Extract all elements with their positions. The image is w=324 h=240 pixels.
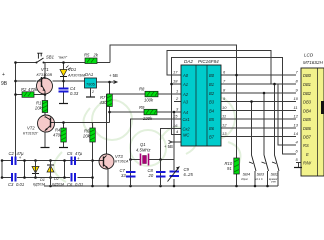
wire second-to-base vertical (92, 161, 94, 187)
svg-text:+ 5В: + 5В (109, 73, 118, 78)
wire B3 row (221, 101, 296, 103)
svg-text:DB2: DB2 (303, 91, 312, 96)
svg-text:430: 430 (100, 100, 108, 105)
LCD pin names (303, 73, 312, 166)
switch SB3 (262, 155, 269, 172)
svg-text:DA2: DA2 (184, 59, 193, 64)
svg-text:счет: счет (271, 181, 277, 184)
svg-text:B4: B4 (209, 109, 215, 114)
ground RW (294, 167, 302, 169)
wire R7 vertical (109, 82, 111, 123)
chip right pin names (209, 73, 215, 140)
svg-text:КТ361А: КТ361А (115, 160, 129, 164)
svg-text:R8: R8 (139, 87, 145, 92)
svg-text:20k: 20k (34, 106, 43, 111)
wire SB2 bottom (277, 172, 279, 186)
wire top bus +9V (16, 62, 111, 64)
ground VT2 emitter (41, 147, 50, 149)
svg-text:220k: 220k (142, 116, 153, 121)
svg-text:20k: 20k (82, 134, 91, 139)
svg-text:+: + (19, 155, 22, 160)
wire top nest A1 (to E) (172, 58, 297, 155)
wire bottom bus (44, 185, 278, 187)
svg-text:16: 16 (173, 123, 178, 128)
ground C4 (59, 103, 68, 105)
svg-text:SB3: SB3 (257, 172, 265, 177)
svg-text:Ск2: Ск2 (183, 127, 191, 132)
chip right pin numbers (222, 70, 227, 137)
svg-text:20: 20 (148, 173, 154, 178)
wire RW stub (296, 163, 301, 168)
wire SB3 drop (263, 93, 265, 155)
svg-text:4.5MHz: 4.5MHz (136, 148, 151, 153)
svg-text:10: 10 (222, 105, 227, 110)
svg-text:18: 18 (173, 79, 178, 84)
wire +5V output (97, 81, 118, 83)
svg-text:C3: C3 (8, 182, 14, 187)
svg-text:B0: B0 (209, 73, 215, 78)
svg-text:14: 14 (294, 131, 299, 136)
svg-text:DB4: DB4 (303, 109, 312, 114)
wire B4 row (221, 110, 296, 112)
watermark (54, 96, 241, 182)
svg-text:B5: B5 (209, 117, 215, 122)
wire rail second (2, 177, 93, 179)
LCD screen corner (321, 101, 324, 114)
diode D2 (47, 166, 54, 173)
node +5V pin14 (169, 141, 173, 144)
svg-text:КД503А: КД503А (52, 183, 65, 187)
wire C9 vertical (173, 160, 175, 187)
svg-text:9В: 9В (1, 81, 8, 87)
wire R6 vertical (91, 123, 93, 161)
svg-text:0.33: 0.33 (70, 91, 79, 96)
svg-text:B7: B7 (209, 135, 215, 140)
node +5V arrow (114, 81, 118, 84)
svg-text:+: + (2, 72, 5, 78)
svg-text:DB6: DB6 (303, 126, 312, 131)
svg-text:A3: A3 (182, 100, 189, 105)
wire SB3 bottom (267, 172, 269, 186)
svg-text:10: 10 (294, 96, 299, 101)
transistor VT3 (99, 154, 114, 169)
svg-text:33: 33 (121, 173, 126, 178)
svg-text:КТ3102Г: КТ3102Г (23, 132, 39, 136)
wire R1 to VT2 collector (44, 113, 46, 118)
svg-text:DB3: DB3 (303, 100, 312, 105)
svg-text:A2: A2 (182, 92, 189, 97)
svg-text:1: 1 (176, 89, 178, 94)
wire VT1 emitter row R2 (16, 94, 46, 96)
wire R10 bottom (236, 174, 238, 186)
wire C2C3 right bracket (24, 161, 26, 178)
wire VT2 base (55, 122, 110, 124)
wire top nest A0 (to RS) (167, 51, 296, 146)
svg-text:DA1: DA1 (85, 72, 93, 77)
svg-text:DB7: DB7 (303, 135, 312, 140)
svg-text:0.01: 0.01 (75, 182, 83, 187)
switch SB1 (37, 53, 44, 62)
svg-text:АЛ307БМ: АЛ307БМ (67, 74, 86, 78)
svg-text:2: 2 (91, 90, 94, 94)
wire regulator input (53, 80, 85, 82)
svg-text:+0.1 С: +0.1 С (255, 177, 263, 181)
svg-text:13: 13 (222, 131, 227, 136)
svg-text:470k: 470k (28, 87, 38, 92)
svg-text:13: 13 (294, 123, 299, 128)
switch SB2 (272, 155, 279, 172)
svg-text:C6: C6 (67, 182, 73, 187)
wire A3 stub (174, 101, 181, 103)
wire VT1 collector (44, 63, 46, 80)
svg-text:DB0: DB0 (303, 73, 312, 78)
wire crystal row (131, 159, 175, 161)
svg-text:7805: 7805 (86, 82, 96, 87)
resistor R5 (85, 58, 97, 64)
wire osc2 (161, 129, 182, 187)
wire B7 row (221, 136, 296, 138)
wire +5V pin14 (172, 141, 181, 143)
svg-text:A0: A0 (182, 73, 189, 78)
wire VT1 base (16, 80, 37, 82)
svg-text:R5: R5 (84, 53, 90, 58)
svg-text:+ 5В: + 5В (164, 144, 173, 149)
svg-text:PIC16F84: PIC16F84 (198, 59, 219, 64)
capacitor C4 (59, 89, 69, 92)
wire SB4 bottom (254, 172, 256, 186)
trimmer capacitor C9 (170, 172, 180, 177)
chip left pin names (182, 73, 190, 138)
svg-text:Ск1: Ск1 (183, 117, 190, 122)
svg-text:DB5: DB5 (303, 117, 312, 122)
wire VT2 emitter (44, 131, 46, 148)
wire B2 row (221, 92, 296, 94)
wire B5 row (221, 118, 296, 120)
svg-text:МС: МС (183, 133, 189, 138)
wire osc1 (131, 119, 182, 186)
capacitor C6 (72, 173, 76, 182)
svg-text:B2: B2 (209, 91, 215, 96)
svg-text:B1: B1 (209, 82, 214, 87)
wire VT1 emitter to R1 (44, 93, 46, 101)
svg-text:МТ16S2H: МТ16S2H (303, 60, 324, 65)
svg-text:R2: R2 (21, 87, 27, 92)
ground DA1 (86, 96, 95, 98)
svg-text:12: 12 (294, 114, 299, 119)
svg-text:17: 17 (173, 70, 178, 75)
transistor VT2 (38, 115, 55, 132)
wire left bracket (1, 161, 3, 178)
svg-text:SB2: SB2 (271, 172, 279, 177)
wire VT3 collector (106, 94, 108, 155)
svg-text:R/W: R/W (303, 161, 312, 166)
svg-text:B3: B3 (209, 100, 215, 105)
svg-text:КД503А: КД503А (33, 183, 46, 187)
wire A4 link (174, 112, 181, 160)
wire SB2 drop (274, 84, 276, 155)
switch SB4 (249, 155, 256, 172)
wire B1 row (221, 83, 296, 85)
svg-text:Q1: Q1 (140, 142, 146, 147)
svg-text:сброс: сброс (241, 177, 249, 181)
svg-text:C5: C5 (67, 151, 73, 156)
svg-text:B6: B6 (209, 126, 215, 131)
svg-text:DB1: DB1 (303, 82, 311, 87)
svg-text:15: 15 (173, 114, 178, 119)
svg-text:RS: RS (303, 143, 309, 148)
svg-text:VT2: VT2 (27, 126, 35, 131)
svg-text:VT1: VT1 (41, 67, 49, 72)
svg-text:"вкл": "вкл" (58, 55, 68, 60)
wire top nest outer (110, 45, 237, 158)
chip left pin numbers (173, 70, 179, 135)
svg-text:D1: D1 (40, 178, 45, 182)
wire VT3 emitter (107, 169, 109, 187)
wire B6 row (221, 127, 296, 129)
svg-text:11: 11 (294, 105, 298, 110)
svg-text:VT3: VT3 (115, 154, 123, 159)
wire B0 row (221, 74, 296, 76)
diode D1 (32, 167, 39, 174)
svg-text:11: 11 (222, 114, 226, 119)
ground R4 (59, 147, 68, 149)
svg-text:A1: A1 (182, 82, 188, 87)
svg-text:SB4: SB4 (243, 172, 251, 177)
svg-text:A4: A4 (182, 110, 189, 115)
svg-text:SB1: SB1 (46, 55, 54, 60)
wire C5C6 left bracket (64, 161, 66, 178)
svg-text:C2: C2 (9, 151, 15, 156)
wire R4 branch (63, 123, 65, 148)
svg-text:12: 12 (222, 123, 227, 128)
LED VD1 (60, 70, 67, 77)
svg-text:E: E (306, 152, 309, 157)
wire R9 row (110, 111, 175, 113)
capacitor C3 (12, 173, 16, 182)
wire MCLR (172, 84, 182, 135)
wire C7 break (130, 169, 132, 171)
svg-text:2k: 2k (93, 53, 99, 58)
LCD pin numbers (294, 70, 299, 163)
wire vertical +9V feed (15, 63, 17, 158)
svg-text:VD1: VD1 (68, 67, 76, 72)
svg-text:6..25: 6..25 (184, 172, 194, 177)
wire R8 row (107, 93, 182, 95)
svg-text:91: 91 (227, 166, 232, 171)
svg-text:100k: 100k (144, 98, 154, 103)
svg-text:0.01: 0.01 (16, 182, 24, 187)
wire rail mid (2, 160, 100, 162)
wire VD1/C4 branch (63, 63, 65, 104)
svg-text:LCD: LCD (304, 53, 314, 58)
wire SB4 drop (251, 102, 253, 156)
